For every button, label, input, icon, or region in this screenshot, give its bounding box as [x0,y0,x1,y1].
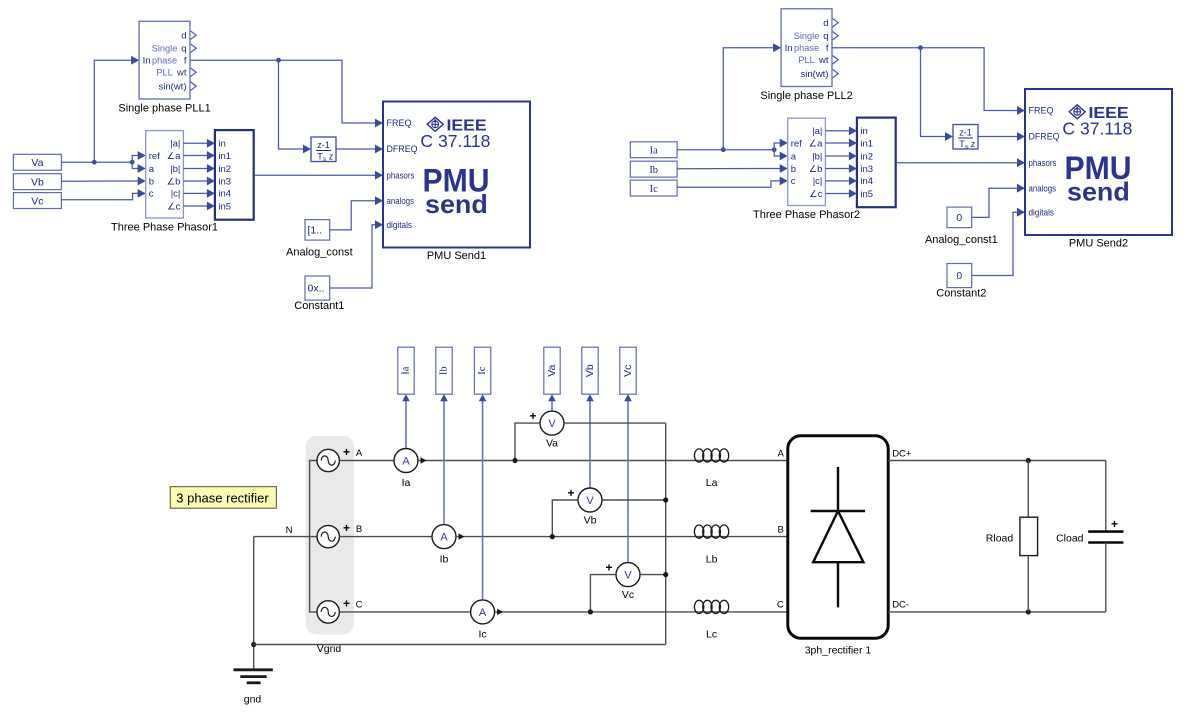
wire riser to PLL In [94,60,131,162]
svg-text:Cload: Cload [1056,533,1084,545]
svg-text:digitals: digitals [1029,207,1055,218]
svg-text:Vb: Vb [31,177,44,189]
svg-text:in4: in4 [860,176,873,187]
wire tag b to b port [61,180,138,182]
wire Va plus tap [515,423,540,460]
goto tag Vc [620,347,636,394]
wire riser to PLL In [723,48,773,150]
svg-text:in5: in5 [860,189,873,200]
wire analog const to analogs [330,201,376,230]
svg-text:q: q [823,31,828,42]
constant Constant1 [305,276,330,300]
svg-text:Ia: Ia [402,477,411,489]
wire analog const to analogs [972,188,1018,217]
svg-text:N: N [286,525,293,536]
goto tag Va [544,347,560,394]
svg-text:+: + [343,445,350,459]
svg-text:A: A [777,448,784,459]
svg-text:PMU Send1: PMU Send1 [427,250,486,262]
svg-text:+: + [605,561,612,575]
wire from tag a to phasor ref/a split [61,161,132,163]
resistor Rload [1020,517,1038,555]
subsystem Three Phase Phasor2 [788,118,826,205]
svg-text:Ib: Ib [649,165,658,176]
svg-text:Constant1: Constant1 [294,300,344,312]
svg-text:c: c [149,189,154,200]
junction gnd rail [251,642,256,647]
svg-text:Rload: Rload [986,533,1014,545]
svg-text:z-1: z-1 [959,128,972,138]
svg-text:A: A [440,532,448,544]
svg-text:|b|: |b| [170,164,180,175]
signal wire Vc to tag [627,400,629,563]
from tag Ia [630,142,677,158]
wire phase B ammeter to rectifier [456,536,788,538]
svg-text:0x..: 0x.. [308,283,325,295]
ac voltage source phase C [317,601,339,623]
voltmeter Vb [578,488,602,512]
goto tag Ia [398,347,414,394]
svg-text:Single: Single [794,31,820,41]
svg-text:in: in [218,139,225,150]
wire phasor ∠a to mux in1 [825,142,849,144]
svg-text:d: d [181,31,186,42]
wire phasor |c| to mux in4 [825,180,849,182]
wire tag c to c port [61,193,138,199]
junction DC- Rload [1026,609,1031,614]
svg-text:PMU Send2: PMU Send2 [1069,238,1128,250]
wire derivative to DFREQ [978,136,1018,138]
svg-text:C: C [356,599,363,610]
wire phase C source to ammeter [339,611,470,613]
svg-text:sin(wt): sin(wt) [159,81,187,92]
svg-text:Constant2: Constant2 [936,288,986,300]
block PMU Send2 [1025,89,1172,235]
wire Cload bottom [1105,543,1107,612]
wire voltmeter return riser [665,423,667,644]
wire mux to phasors [254,174,376,176]
wire derivative to DFREQ [336,148,376,150]
svg-text:+: + [343,596,350,610]
svg-text:in4: in4 [218,189,231,200]
wire Vb plus tap [552,500,578,537]
signal wire Ic to tag [482,400,484,600]
svg-text:|a|: |a| [170,139,180,150]
wire split to ref port [132,156,138,163]
wire bottom return rail [254,644,666,646]
goto tag Ic [474,347,490,394]
svg-text:Vc: Vc [622,589,634,601]
inductor Lc [694,600,703,613]
svg-text:analogs: analogs [387,196,415,207]
wire phasor ∠c to mux in5 [183,205,207,207]
wire phasor ∠b to mux in3 [183,180,207,182]
svg-text:DFREQ: DFREQ [1029,132,1060,143]
wire phase B source to ammeter [339,536,432,538]
svg-text:∠c: ∠c [167,201,181,212]
svg-text:Ic: Ic [479,629,487,641]
wire Vc minus to return [640,574,666,576]
svg-text:+: + [343,521,350,535]
svg-text:B: B [356,524,362,535]
svg-text:+: + [529,409,536,423]
svg-text:b: b [791,164,796,175]
svg-text:3 phase rectifier: 3 phase rectifier [176,490,269,505]
svg-text:∠a: ∠a [167,151,182,162]
from tag Ib [630,161,677,177]
svg-text:A: A [479,607,487,619]
svg-text:phase: phase [794,43,819,53]
svg-text:C 37.118: C 37.118 [1062,119,1132,139]
signal wire Ib to tag [443,400,445,525]
wire constant to digitals [330,225,376,288]
svg-text:sin(wt): sin(wt) [801,69,829,80]
from tag Vb [13,174,61,190]
wire mux to phasors [896,162,1018,164]
junction Vb return [663,497,668,502]
svg-text:C: C [777,600,784,611]
inductor Lb [694,525,703,538]
svg-text:La: La [706,477,718,489]
voltage source group Vgrid background [306,436,354,635]
svg-text:Vb: Vb [584,515,597,527]
svg-text:f: f [184,56,187,67]
wire f to FREQ [190,60,376,123]
subsystem Single phase PLL1 [139,21,190,99]
svg-text:in: in [860,126,867,137]
svg-text:[1..: [1.. [308,225,323,237]
wire phasor |a| to mux in [825,130,849,132]
svg-text:Analog_const1: Analog_const1 [925,234,998,246]
svg-text:V: V [624,570,632,582]
rectifier 3ph_rectifier 1 [788,436,888,639]
wire tag b to b port [677,168,780,170]
svg-text:∠b: ∠b [809,164,823,175]
svg-text:Va: Va [546,365,558,377]
svg-text:∠c: ∠c [809,189,823,200]
wire phase A ammeter to rectifier [418,460,788,462]
svg-text:C 37.118: C 37.118 [420,131,490,151]
inductor La [694,449,703,462]
voltmeter Vc [616,563,640,587]
svg-text:ref: ref [791,138,802,149]
svg-text:ref: ref [149,151,160,162]
wire DC- rail [888,611,1106,613]
wire Vb minus to return [602,499,666,501]
constant Analog_const [305,220,330,241]
wire phasor |c| to mux in4 [183,192,207,194]
wire phasor |a| to mux in [183,142,207,144]
ammeter Ia [394,449,418,473]
svg-text:Three Phase Phasor2: Three Phase Phasor2 [753,209,860,221]
discrete derivative 2 [953,125,978,150]
annotation 3 phase rectifier [170,487,276,509]
signal wire Va to tag [551,400,553,412]
svg-text:+: + [1111,517,1118,531]
svg-text:∠b: ∠b [167,176,181,187]
svg-text:d: d [823,18,828,29]
voltmeter Va [540,411,564,435]
junction Vc return [663,572,668,577]
from tag Va [13,154,61,170]
svg-text:in2: in2 [860,151,873,162]
wire N to bus [254,536,310,538]
svg-text:|b|: |b| [812,151,822,162]
svg-text:wt: wt [176,68,187,79]
ac voltage source phase B [317,525,339,547]
constant Analog_const1 [947,207,972,228]
svg-text:analogs: analogs [1029,183,1057,194]
svg-text:DC-: DC- [892,600,909,611]
svg-text:Three Phase Phasor1: Three Phase Phasor1 [111,222,218,234]
svg-text:Va: Va [31,157,43,169]
svg-text:in2: in2 [218,164,231,175]
svg-text:in1: in1 [218,151,231,162]
mux block [215,130,254,220]
svg-text:Ic: Ic [650,184,658,195]
svg-text:∠a: ∠a [809,138,824,149]
wire tag c to c port [677,181,780,187]
svg-text:PLL: PLL [798,55,814,65]
svg-text:Lb: Lb [706,553,718,565]
svg-text:q: q [181,44,186,55]
svg-text:Single phase PLL1: Single phase PLL1 [118,103,210,115]
svg-text:FREQ: FREQ [387,118,412,129]
wire phasor ∠b to mux in3 [825,168,849,170]
svg-text:Ib: Ib [440,553,449,565]
svg-text:Vc: Vc [622,365,634,377]
svg-text:Vc: Vc [31,196,43,208]
wire split to a port [774,150,780,156]
svg-text:0: 0 [956,212,962,224]
svg-text:z: z [329,152,334,162]
svg-text:a: a [149,164,155,175]
svg-text:gnd: gnd [244,694,262,706]
svg-text:in1: in1 [860,138,873,149]
svg-text:Ia: Ia [650,146,658,157]
signal wire Ia to tag [405,400,407,449]
svg-text:z-1: z-1 [317,140,330,150]
wire from tag a to phasor ref/a split [677,149,774,151]
svg-text:c: c [791,176,796,187]
wire split to ref port [774,143,780,150]
svg-text:V: V [548,418,556,430]
wire source bus [310,461,317,612]
svg-text:A: A [356,448,363,459]
svg-text:Va: Va [546,438,558,450]
wire Rload top [1027,461,1029,518]
junction DC+ Rload [1026,458,1031,463]
svg-text:in5: in5 [218,201,231,212]
discrete derivative 1 [311,137,336,162]
signal wire Vb to tag [589,400,591,489]
svg-text:|c|: |c| [813,176,823,187]
svg-text:send: send [1067,177,1130,207]
svg-text:|c|: |c| [171,189,181,200]
svg-text:in3: in3 [860,164,873,175]
svg-text:A: A [402,456,410,468]
svg-text:Ia: Ia [401,366,412,374]
wire Cload top [1105,461,1107,532]
svg-text:Single: Single [152,44,178,54]
block PMU Send1 [383,102,530,248]
svg-text:+: + [567,486,574,500]
svg-text:Single phase PLL2: Single phase PLL2 [760,90,852,102]
constant Constant2 [947,264,972,288]
svg-text:z: z [971,139,976,149]
mux block [857,118,896,208]
wire phasor |b| to mux in2 [825,155,849,157]
wire f branch to discrete derivative [921,48,946,137]
svg-text:send: send [425,189,488,219]
ac voltage source phase A [317,449,339,471]
wire phase A source to ammeter [339,460,394,462]
svg-text:In: In [785,43,793,54]
wire phase C ammeter to rectifier [495,611,788,613]
svg-text:Ib: Ib [439,366,450,375]
subsystem Single phase PLL2 [781,9,832,87]
svg-text:FREQ: FREQ [1029,106,1054,117]
svg-text:a: a [791,151,797,162]
svg-text:3ph_rectifier 1: 3ph_rectifier 1 [805,645,872,657]
svg-text:phasors: phasors [387,170,415,181]
svg-text:Analog_const: Analog_const [286,247,353,259]
svg-text:phase: phase [152,56,177,66]
svg-text:wt: wt [818,55,829,66]
from tag Vc [13,193,61,209]
subsystem Three Phase Phasor1 [146,131,184,218]
ground gnd [253,537,255,670]
wire phasor ∠c to mux in5 [825,193,849,195]
wire f to FREQ [832,48,1018,111]
svg-text:B: B [777,524,783,535]
svg-text:Ic: Ic [477,366,488,374]
wire f branch to discrete derivative [279,60,304,149]
goto tag Vb [582,347,598,394]
svg-text:DFREQ: DFREQ [387,144,418,155]
wire Va minus to return [564,422,666,424]
ammeter Ic [471,600,495,624]
svg-text:phasors: phasors [1029,158,1057,169]
wire phasor ∠a to mux in1 [183,155,207,157]
svg-text:Lc: Lc [706,629,717,641]
capacitor Cload [1088,530,1123,533]
svg-text:V: V [586,495,594,507]
ammeter Ib [432,525,456,549]
wire phasor |b| to mux in2 [183,168,207,170]
svg-text:f: f [826,43,829,54]
svg-text:DC+: DC+ [892,448,912,459]
svg-text:|a|: |a| [812,126,822,137]
svg-text:Vb: Vb [584,364,596,377]
svg-text:In: In [143,56,151,67]
wire split to a port [132,162,138,168]
svg-text:b: b [149,176,154,187]
wire constant to digitals [972,212,1018,275]
wire Rload bottom [1027,556,1029,612]
wire Vc plus tap [590,575,616,612]
from tag Ic [630,180,677,196]
svg-text:PLL: PLL [156,68,172,78]
goto tag Ib [436,347,452,394]
svg-text:in3: in3 [218,176,231,187]
svg-text:0: 0 [956,270,962,282]
wire DC+ rail [888,460,1106,462]
svg-text:digitals: digitals [387,220,413,231]
